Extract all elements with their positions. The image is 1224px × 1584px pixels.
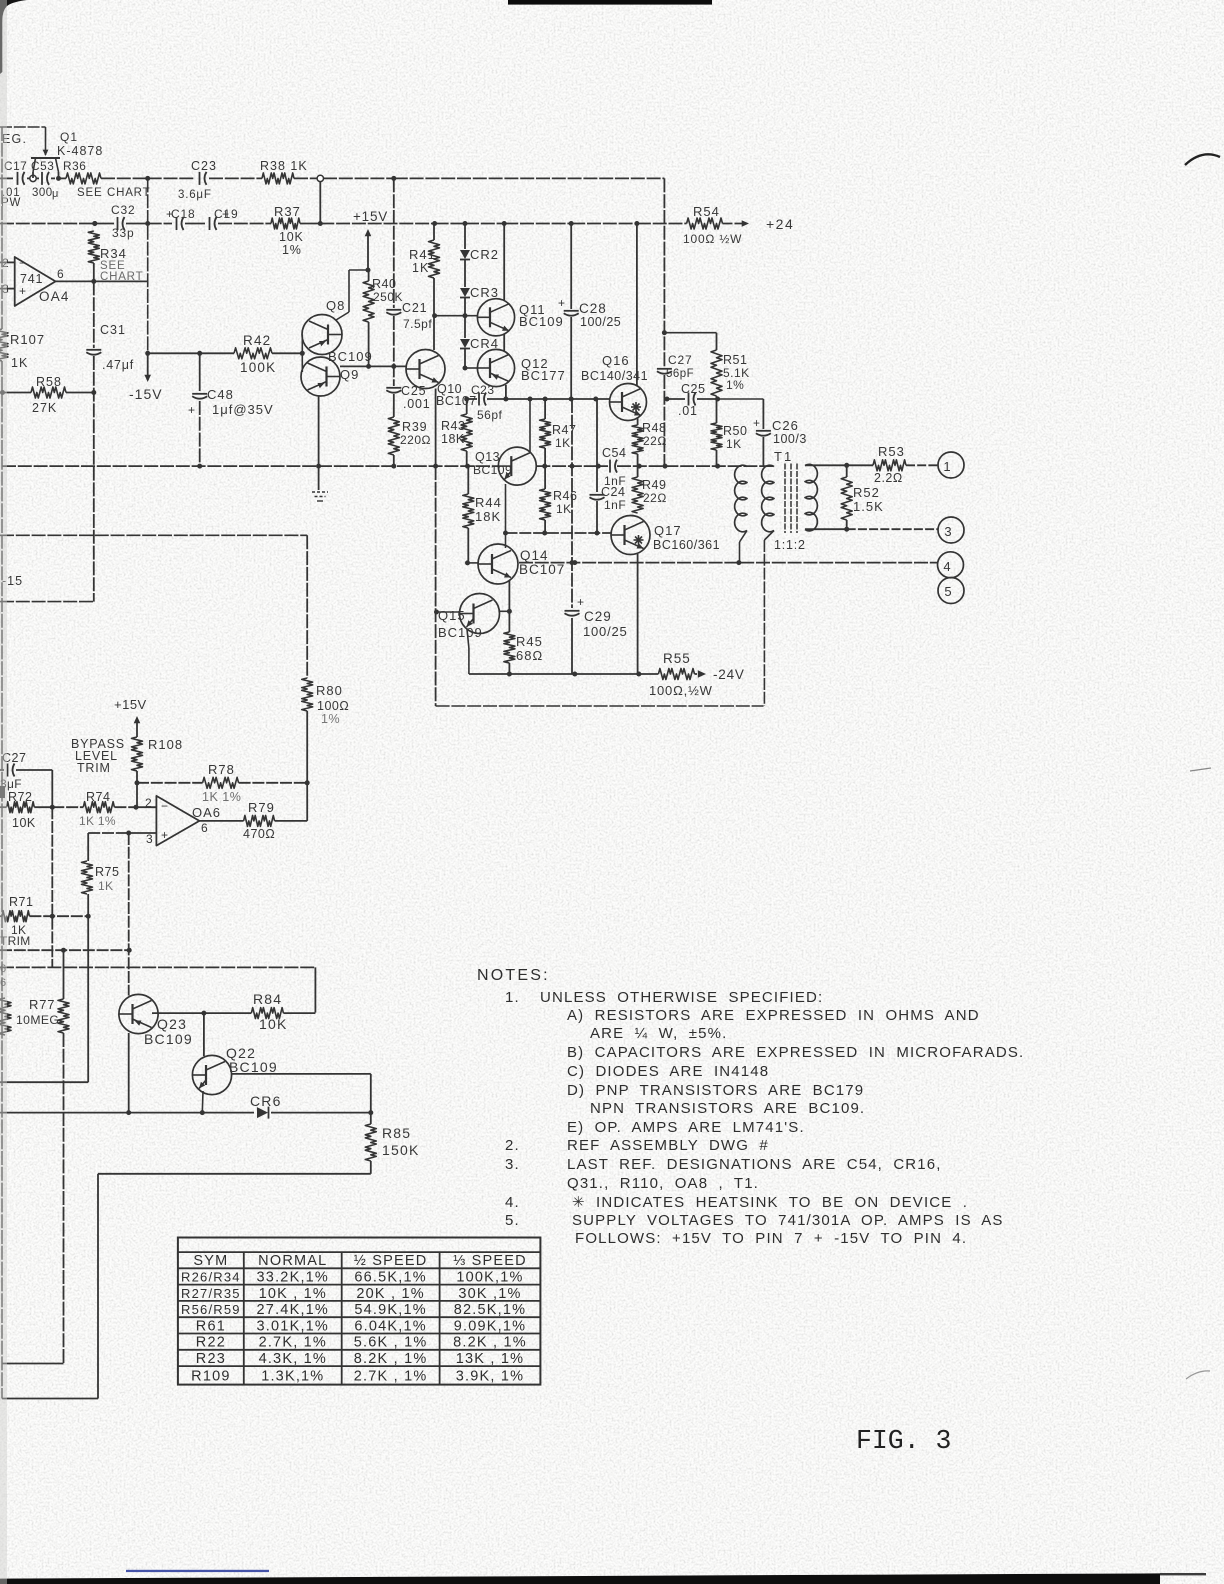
svg-text:6: 6 — [57, 267, 64, 281]
svg-text:100Ω ½W: 100Ω ½W — [683, 232, 742, 246]
svg-text:⅓ SPEED: ⅓ SPEED — [453, 1253, 527, 1269]
svg-text:+: + — [577, 595, 584, 609]
svg-text:2.7K , 1%: 2.7K , 1% — [354, 1368, 428, 1384]
svg-text:Q13: Q13 — [475, 450, 500, 464]
svg-text:SYM: SYM — [193, 1253, 228, 1269]
svg-text:5: 5 — [944, 584, 951, 599]
svg-text:27.4K,1%: 27.4K,1% — [257, 1302, 329, 1318]
svg-text:+24: +24 — [766, 216, 794, 232]
svg-text:C26: C26 — [772, 418, 799, 433]
svg-text:10K: 10K — [279, 230, 304, 244]
svg-text:R53: R53 — [878, 444, 905, 459]
svg-text:27K: 27K — [32, 401, 57, 415]
svg-text:54.9K,1%: 54.9K,1% — [354, 1302, 426, 1318]
svg-text:R108: R108 — [148, 737, 183, 752]
svg-text:BC109: BC109 — [519, 314, 564, 329]
svg-text:R50: R50 — [723, 424, 747, 438]
svg-text:BC109: BC109 — [229, 1059, 278, 1075]
svg-text:C28: C28 — [579, 301, 607, 316]
svg-text:7.5pf: 7.5pf — [403, 317, 432, 331]
svg-text:1.: 1. — [505, 989, 520, 1006]
svg-text:Q23: Q23 — [157, 1016, 187, 1032]
svg-text:R55: R55 — [663, 651, 691, 666]
svg-text:T1: T1 — [774, 449, 793, 464]
svg-text:Q31., R110, OA8 , T1.: Q31., R110, OA8 , T1. — [567, 1175, 759, 1192]
svg-text:20K , 1%: 20K , 1% — [356, 1286, 424, 1302]
svg-text:C23: C23 — [471, 383, 495, 397]
svg-text:5.6K , 1%: 5.6K , 1% — [354, 1335, 428, 1351]
svg-text:.01: .01 — [678, 404, 698, 418]
svg-text:+15V: +15V — [114, 697, 147, 712]
svg-text:4.: 4. — [505, 1194, 520, 1211]
svg-text:SEE: SEE — [77, 187, 102, 199]
svg-text:+: + — [188, 403, 195, 417]
svg-text:R79: R79 — [248, 800, 275, 815]
svg-text:Q15: Q15 — [438, 608, 466, 623]
svg-text:13K , 1%: 13K , 1% — [456, 1351, 524, 1367]
svg-text:C24: C24 — [601, 485, 625, 499]
svg-text:OA4: OA4 — [39, 289, 70, 304]
svg-text:30K ,1%: 30K ,1% — [458, 1286, 521, 1302]
svg-text:BC109: BC109 — [144, 1031, 193, 1047]
svg-text:100/3: 100/3 — [773, 432, 807, 446]
svg-text:R58: R58 — [36, 375, 62, 389]
svg-text:R44: R44 — [475, 495, 502, 510]
svg-text:1K: 1K — [98, 879, 113, 893]
svg-text:NPN TRANSISTORS ARE BC109.: NPN TRANSISTORS ARE BC109. — [590, 1100, 865, 1117]
svg-text:R56/R59: R56/R59 — [181, 1302, 241, 1317]
svg-text:Q8: Q8 — [326, 298, 345, 313]
svg-text:2: 2 — [145, 796, 152, 810]
svg-text:R74: R74 — [86, 790, 110, 804]
svg-text:C29: C29 — [584, 609, 612, 624]
svg-text:R49: R49 — [642, 478, 666, 492]
svg-text:1K: 1K — [555, 436, 571, 450]
svg-text:250K: 250K — [373, 290, 403, 304]
svg-text:1: 1 — [943, 459, 950, 474]
svg-text:NOTES:: NOTES: — [477, 967, 550, 984]
svg-text:C53: C53 — [31, 159, 54, 173]
svg-text:Q16: Q16 — [602, 353, 630, 368]
svg-text:μ: μ — [52, 188, 58, 200]
svg-text:22Ω: 22Ω — [643, 434, 667, 448]
svg-text:1.3K,1%: 1.3K,1% — [261, 1368, 324, 1384]
svg-text:1%: 1% — [726, 378, 744, 392]
svg-text:+: + — [753, 416, 760, 430]
svg-text:C32: C32 — [111, 203, 135, 217]
svg-text:CR3: CR3 — [470, 285, 499, 300]
svg-text:3: 3 — [146, 832, 153, 846]
svg-text:1K: 1K — [726, 437, 742, 451]
svg-text:✳ INDICATES HEATSINK TO BE: ✳ INDICATES HEATSINK TO BE ON DEVICE . — [572, 1194, 968, 1211]
svg-text:R85: R85 — [382, 1125, 411, 1141]
svg-text:56pF: 56pF — [666, 368, 694, 380]
svg-text:D) PNP TRANSISTORS ARE BC179: D) PNP TRANSISTORS ARE BC179 — [567, 1082, 864, 1099]
svg-text:100K,1%: 100K,1% — [456, 1269, 523, 1285]
svg-text:FOLLOWS: +15V TO PIN 7 +: FOLLOWS: +15V TO PIN 7 + -15V TO PIN 4. — [575, 1230, 967, 1247]
svg-text:R78: R78 — [208, 762, 235, 777]
svg-text:BC109: BC109 — [438, 625, 483, 640]
svg-text:C54: C54 — [602, 446, 626, 460]
svg-text:BC109: BC109 — [473, 463, 512, 477]
svg-text:R80: R80 — [316, 683, 343, 698]
svg-text:C23: C23 — [191, 159, 217, 173]
svg-text:+: + — [558, 296, 565, 310]
svg-text:8.2K , 1%: 8.2K , 1% — [453, 1335, 527, 1351]
svg-text:R40: R40 — [372, 277, 396, 291]
svg-text:4.3K, 1%: 4.3K, 1% — [259, 1351, 327, 1367]
svg-text:1%: 1% — [321, 712, 340, 726]
svg-text:2.7K, 1%: 2.7K, 1% — [259, 1335, 327, 1351]
svg-text:10K , 1%: 10K , 1% — [259, 1286, 327, 1302]
svg-text:OA6: OA6 — [192, 805, 221, 820]
svg-text:R72: R72 — [8, 790, 32, 804]
svg-text:TRIM: TRIM — [77, 761, 111, 775]
svg-text:R75: R75 — [95, 865, 119, 879]
svg-text:-15V: -15V — [129, 386, 163, 402]
svg-text:SUPPLY VOLTAGES TO 741/301A: SUPPLY VOLTAGES TO 741/301A OP. AMPS IS … — [572, 1212, 1004, 1229]
svg-text:R26/R34: R26/R34 — [181, 1269, 241, 1284]
svg-text:8.2K , 1%: 8.2K , 1% — [354, 1351, 428, 1367]
svg-text:C19: C19 — [214, 207, 238, 221]
svg-text:1K: 1K — [11, 356, 28, 370]
svg-text:33p: 33p — [112, 226, 134, 240]
svg-text:R71: R71 — [9, 895, 33, 909]
svg-text:18K: 18K — [475, 509, 501, 524]
svg-text:3: 3 — [944, 524, 951, 539]
svg-text:68Ω: 68Ω — [516, 648, 543, 663]
svg-text:Q17: Q17 — [654, 523, 682, 538]
svg-text:R84: R84 — [253, 991, 282, 1007]
svg-text:4: 4 — [943, 559, 950, 574]
svg-text:.001: .001 — [403, 397, 431, 411]
svg-text:BC177: BC177 — [521, 368, 566, 383]
svg-text:10K: 10K — [259, 1016, 288, 1032]
svg-text:R54: R54 — [693, 204, 720, 219]
svg-text:R37: R37 — [274, 204, 301, 219]
svg-text:R41: R41 — [409, 247, 436, 262]
svg-text:K-4878: K-4878 — [57, 144, 103, 158]
svg-text:33.2K,1%: 33.2K,1% — [257, 1269, 329, 1285]
svg-text:741: 741 — [20, 272, 43, 286]
svg-text:1K 1%: 1K 1% — [202, 790, 241, 804]
svg-text:C25: C25 — [401, 384, 426, 398]
svg-text:FIG. 3: FIG. 3 — [856, 1426, 951, 1456]
svg-text:+: + — [19, 284, 26, 298]
svg-text:10K: 10K — [12, 816, 36, 830]
svg-text:150K: 150K — [382, 1142, 420, 1158]
svg-text:C25: C25 — [681, 382, 705, 396]
svg-text:A) RESISTORS ARE EXPRESSED: A) RESISTORS ARE EXPRESSED IN OHMS AND — [567, 1007, 980, 1024]
svg-text:56pf: 56pf — [477, 408, 503, 422]
svg-text:82.5K,1%: 82.5K,1% — [454, 1302, 526, 1318]
svg-text:R77: R77 — [29, 997, 55, 1012]
svg-text:100/25: 100/25 — [580, 315, 621, 329]
svg-text:C18: C18 — [171, 207, 195, 221]
svg-text:R42: R42 — [243, 333, 271, 348]
svg-text:CR2: CR2 — [470, 247, 499, 262]
svg-text:R61: R61 — [196, 1318, 226, 1334]
svg-text:CR6: CR6 — [250, 1093, 282, 1109]
svg-text:+15V: +15V — [353, 209, 388, 224]
svg-text:1K: 1K — [412, 261, 429, 275]
svg-text:CHART: CHART — [107, 187, 150, 199]
svg-text:470Ω: 470Ω — [243, 827, 275, 841]
svg-text:3.6μF: 3.6μF — [178, 189, 212, 201]
svg-text:1%: 1% — [282, 243, 302, 257]
svg-text:E) OP. AMPS ARE LM741'S.: E) OP. AMPS ARE LM741'S. — [567, 1119, 805, 1136]
svg-text:6: 6 — [201, 821, 208, 835]
svg-text:18K: 18K — [441, 432, 465, 446]
svg-text:ARE ¼ W, ±5%.: ARE ¼ W, ±5%. — [590, 1025, 727, 1042]
svg-text:R23: R23 — [196, 1351, 226, 1367]
svg-text:R109: R109 — [191, 1368, 230, 1384]
svg-text:220Ω: 220Ω — [400, 433, 431, 447]
svg-text:C21: C21 — [402, 301, 427, 315]
svg-text:C31: C31 — [100, 323, 126, 337]
svg-text:C27: C27 — [668, 353, 692, 367]
svg-text:+: + — [161, 828, 168, 842]
svg-text:100Ω,½W: 100Ω,½W — [649, 683, 713, 698]
svg-text:R22: R22 — [196, 1335, 226, 1351]
svg-text:6.04K,1%: 6.04K,1% — [354, 1318, 426, 1334]
svg-text:R39: R39 — [402, 420, 427, 434]
svg-text:1μf@35V: 1μf@35V — [212, 402, 274, 417]
svg-text:BC107: BC107 — [519, 562, 565, 577]
svg-text:Q1: Q1 — [60, 130, 78, 144]
svg-text:R43: R43 — [441, 419, 465, 433]
svg-text:3.: 3. — [505, 1156, 520, 1173]
svg-text:.47μf: .47μf — [102, 358, 134, 372]
svg-text:REF ASSEMBLY DWG #: REF ASSEMBLY DWG # — [567, 1137, 769, 1154]
svg-text:100Ω: 100Ω — [317, 699, 349, 713]
svg-text:LAST REF. DESIGNATIONS ARE: LAST REF. DESIGNATIONS ARE C54, CR16, — [567, 1156, 942, 1173]
svg-text:2.: 2. — [505, 1137, 520, 1154]
svg-text:BC140/341: BC140/341 — [581, 369, 648, 383]
svg-text:R51: R51 — [723, 353, 747, 367]
svg-text:NORMAL: NORMAL — [258, 1253, 327, 1269]
svg-text:2.2Ω: 2.2Ω — [874, 471, 903, 485]
svg-text:R107: R107 — [10, 332, 45, 347]
svg-text:100/25: 100/25 — [583, 624, 628, 639]
svg-text:R38 1K: R38 1K — [260, 159, 308, 173]
svg-text:R45: R45 — [516, 634, 543, 649]
svg-text:R34: R34 — [100, 246, 127, 261]
svg-text:½ SPEED: ½ SPEED — [354, 1253, 428, 1269]
svg-text:1K 1%: 1K 1% — [79, 814, 116, 828]
svg-text:Q14: Q14 — [520, 548, 549, 563]
svg-text:R46: R46 — [553, 489, 577, 503]
svg-text:3.9K, 1%: 3.9K, 1% — [456, 1368, 524, 1384]
svg-text:5.: 5. — [505, 1212, 520, 1229]
svg-text:1K: 1K — [556, 502, 572, 516]
svg-text:BC109: BC109 — [328, 349, 373, 364]
svg-text:C17: C17 — [4, 159, 27, 173]
svg-text:−: − — [161, 799, 168, 813]
svg-text:−: − — [19, 256, 26, 270]
svg-text:3.01K,1%: 3.01K,1% — [257, 1318, 329, 1334]
svg-text:100K: 100K — [240, 360, 276, 375]
svg-text:R52: R52 — [853, 485, 880, 500]
svg-text:66.5K,1%: 66.5K,1% — [354, 1269, 426, 1285]
svg-text:10MEG: 10MEG — [16, 1013, 59, 1027]
svg-text:C) DIODES ARE IN4148: C) DIODES ARE IN4148 — [567, 1063, 769, 1080]
svg-text:22Ω: 22Ω — [643, 491, 667, 505]
svg-text:9.09K,1%: 9.09K,1% — [454, 1318, 526, 1334]
svg-text:Q9: Q9 — [340, 367, 359, 382]
svg-text:1.5K: 1.5K — [853, 499, 884, 514]
svg-text:C48: C48 — [207, 387, 234, 402]
svg-text:B) CAPACITORS ARE EXPRESSED IN: B) CAPACITORS ARE EXPRESSED IN MICROFARA… — [567, 1044, 1024, 1061]
svg-text:300: 300 — [32, 187, 53, 199]
svg-text:BC160/361: BC160/361 — [653, 538, 720, 552]
svg-text:1nF: 1nF — [604, 498, 626, 512]
svg-text:R48: R48 — [642, 421, 666, 435]
svg-text:R27/R35: R27/R35 — [181, 1286, 241, 1301]
svg-text:R36: R36 — [63, 159, 86, 173]
svg-text:1:1:2: 1:1:2 — [774, 538, 806, 552]
svg-text:UNLESS OTHERWISE SPECIFIED:: UNLESS OTHERWISE SPECIFIED: — [540, 989, 823, 1006]
svg-text:-24V: -24V — [713, 667, 745, 682]
